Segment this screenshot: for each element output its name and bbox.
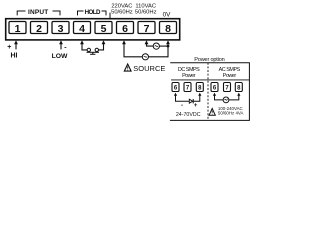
svg-text:50/60Hz: 50/60Hz	[111, 9, 133, 15]
arrow into terminal 1	[14, 40, 18, 44]
switch S1 contact left	[87, 48, 90, 51]
svg-text:7: 7	[144, 23, 150, 35]
svg-text:3: 3	[58, 23, 64, 35]
DC terminal 6	[172, 83, 179, 92]
DC wire from terminal 6	[176, 95, 190, 102]
AC source (110V) circle	[153, 43, 159, 49]
sine glyph in AC SMPS source	[225, 99, 228, 101]
arrow into terminal 7	[145, 40, 149, 44]
svg-text:7: 7	[225, 85, 229, 91]
arrow into terminal 6	[122, 40, 126, 44]
terminal 3	[52, 22, 69, 34]
arrow into terminal 8	[166, 40, 170, 44]
svg-text:7: 7	[186, 85, 190, 91]
svg-text:8: 8	[237, 85, 241, 91]
switch S1 actuator handle	[90, 53, 95, 55]
svg-text:2: 2	[36, 23, 42, 35]
svg-text:LOW: LOW	[52, 53, 68, 60]
svg-text:-: -	[181, 103, 183, 109]
svg-text:Power option: Power option	[194, 57, 224, 63]
arrow into AC terminal 8	[237, 93, 240, 96]
switch S1 contact right	[95, 48, 98, 51]
terminal 6	[117, 22, 134, 34]
arrow into DC terminal 8	[198, 93, 201, 96]
svg-text:5: 5	[101, 23, 107, 35]
hold switch S1 wiring: wire from terminal 5	[99, 43, 104, 50]
wire 220V source to node at terminal 8	[149, 56, 169, 58]
wire terminal 8 (0V return)	[167, 43, 169, 57]
bracket right of HOLD	[102, 11, 107, 15]
svg-text:HOLD: HOLD	[85, 9, 101, 16]
DC terminal 7	[184, 83, 191, 92]
svg-text:6: 6	[174, 85, 178, 91]
svg-text:1: 1	[15, 23, 21, 35]
sine glyph in 110V source	[155, 46, 158, 47]
terminal 7	[138, 22, 155, 34]
switch S1 actuator stem	[92, 52, 94, 54]
diode D1 in DC supply lead	[189, 99, 192, 103]
wire terminal 6 to AC source (220VAC leg)	[124, 43, 142, 57]
junction node at terminal 8 wire	[167, 45, 170, 48]
terminal 4	[74, 22, 91, 34]
switch S1 blade	[87, 51, 100, 53]
hold switch S1 wiring: wire from terminal 4	[82, 43, 87, 50]
wire terminal 7 to AC source (110VAC leg)	[147, 43, 154, 46]
svg-text:+: +	[194, 103, 198, 109]
arrow into terminal 5	[102, 40, 106, 44]
svg-text:8: 8	[198, 85, 202, 91]
AC terminal 7	[224, 83, 231, 92]
svg-text:6: 6	[213, 85, 217, 91]
exclamation in SOURCE triangle	[127, 66, 129, 68]
warning triangle SOURCE	[124, 64, 131, 71]
exclamation in AC rating triangle	[211, 111, 213, 113]
svg-text:220VAC: 220VAC	[111, 3, 132, 9]
svg-text:-: -	[64, 44, 67, 51]
svg-text:8: 8	[165, 23, 171, 35]
warning triangle AC rating	[209, 109, 215, 116]
svg-text:6: 6	[122, 23, 128, 35]
header separator rule	[171, 79, 249, 81]
terminal 1	[9, 22, 26, 34]
sine glyph in 220V source	[144, 56, 147, 57]
arrow into terminal 3	[59, 40, 63, 44]
AC terminal 8	[235, 83, 242, 92]
dashed divider between DC and AC cells	[207, 63, 209, 121]
terminal strip outer body	[6, 19, 180, 40]
AC source (220V) circle	[142, 54, 148, 60]
bracket left of INPUT	[17, 11, 25, 15]
leader line from voltage labels to strip	[109, 13, 111, 19]
svg-text:24-70VDC: 24-70VDC	[176, 112, 201, 118]
svg-text:50/60Hz 4VA: 50/60Hz 4VA	[218, 110, 244, 115]
arrow into terminal 4	[80, 40, 84, 44]
terminal 8	[160, 22, 177, 34]
AC wire from terminal 6	[215, 95, 224, 100]
svg-text:0V: 0V	[163, 12, 172, 19]
svg-text:Power: Power	[182, 73, 196, 79]
wire terminal 3 (- LOW input)	[60, 43, 62, 49]
AC terminal 6	[211, 83, 218, 92]
arrow into DC terminal 6	[174, 93, 177, 96]
terminal 2	[31, 22, 48, 34]
svg-text:50/60Hz: 50/60Hz	[135, 9, 157, 15]
DC terminal 8	[196, 83, 203, 92]
svg-text:INPUT: INPUT	[28, 9, 49, 16]
terminal 5	[95, 22, 112, 34]
svg-text:HI: HI	[11, 53, 18, 60]
bracket right of INPUT	[53, 11, 61, 15]
arrow into AC terminal 6	[213, 93, 216, 96]
wire 110V source to node at terminal 8	[159, 45, 168, 47]
AC SMPS source circle	[223, 97, 229, 103]
svg-text:+: +	[7, 44, 11, 51]
svg-text:110VAC: 110VAC	[135, 3, 156, 9]
DC wire from terminal 8	[194, 95, 200, 102]
wire terminal 1 (+ HI input)	[15, 43, 17, 49]
svg-text:Power: Power	[223, 73, 237, 79]
bracket left of HOLD	[78, 11, 84, 15]
svg-text:4: 4	[79, 23, 85, 35]
power option box	[170, 63, 250, 121]
svg-text:SOURCE: SOURCE	[133, 64, 165, 73]
AC wire from terminal 8	[229, 95, 239, 100]
